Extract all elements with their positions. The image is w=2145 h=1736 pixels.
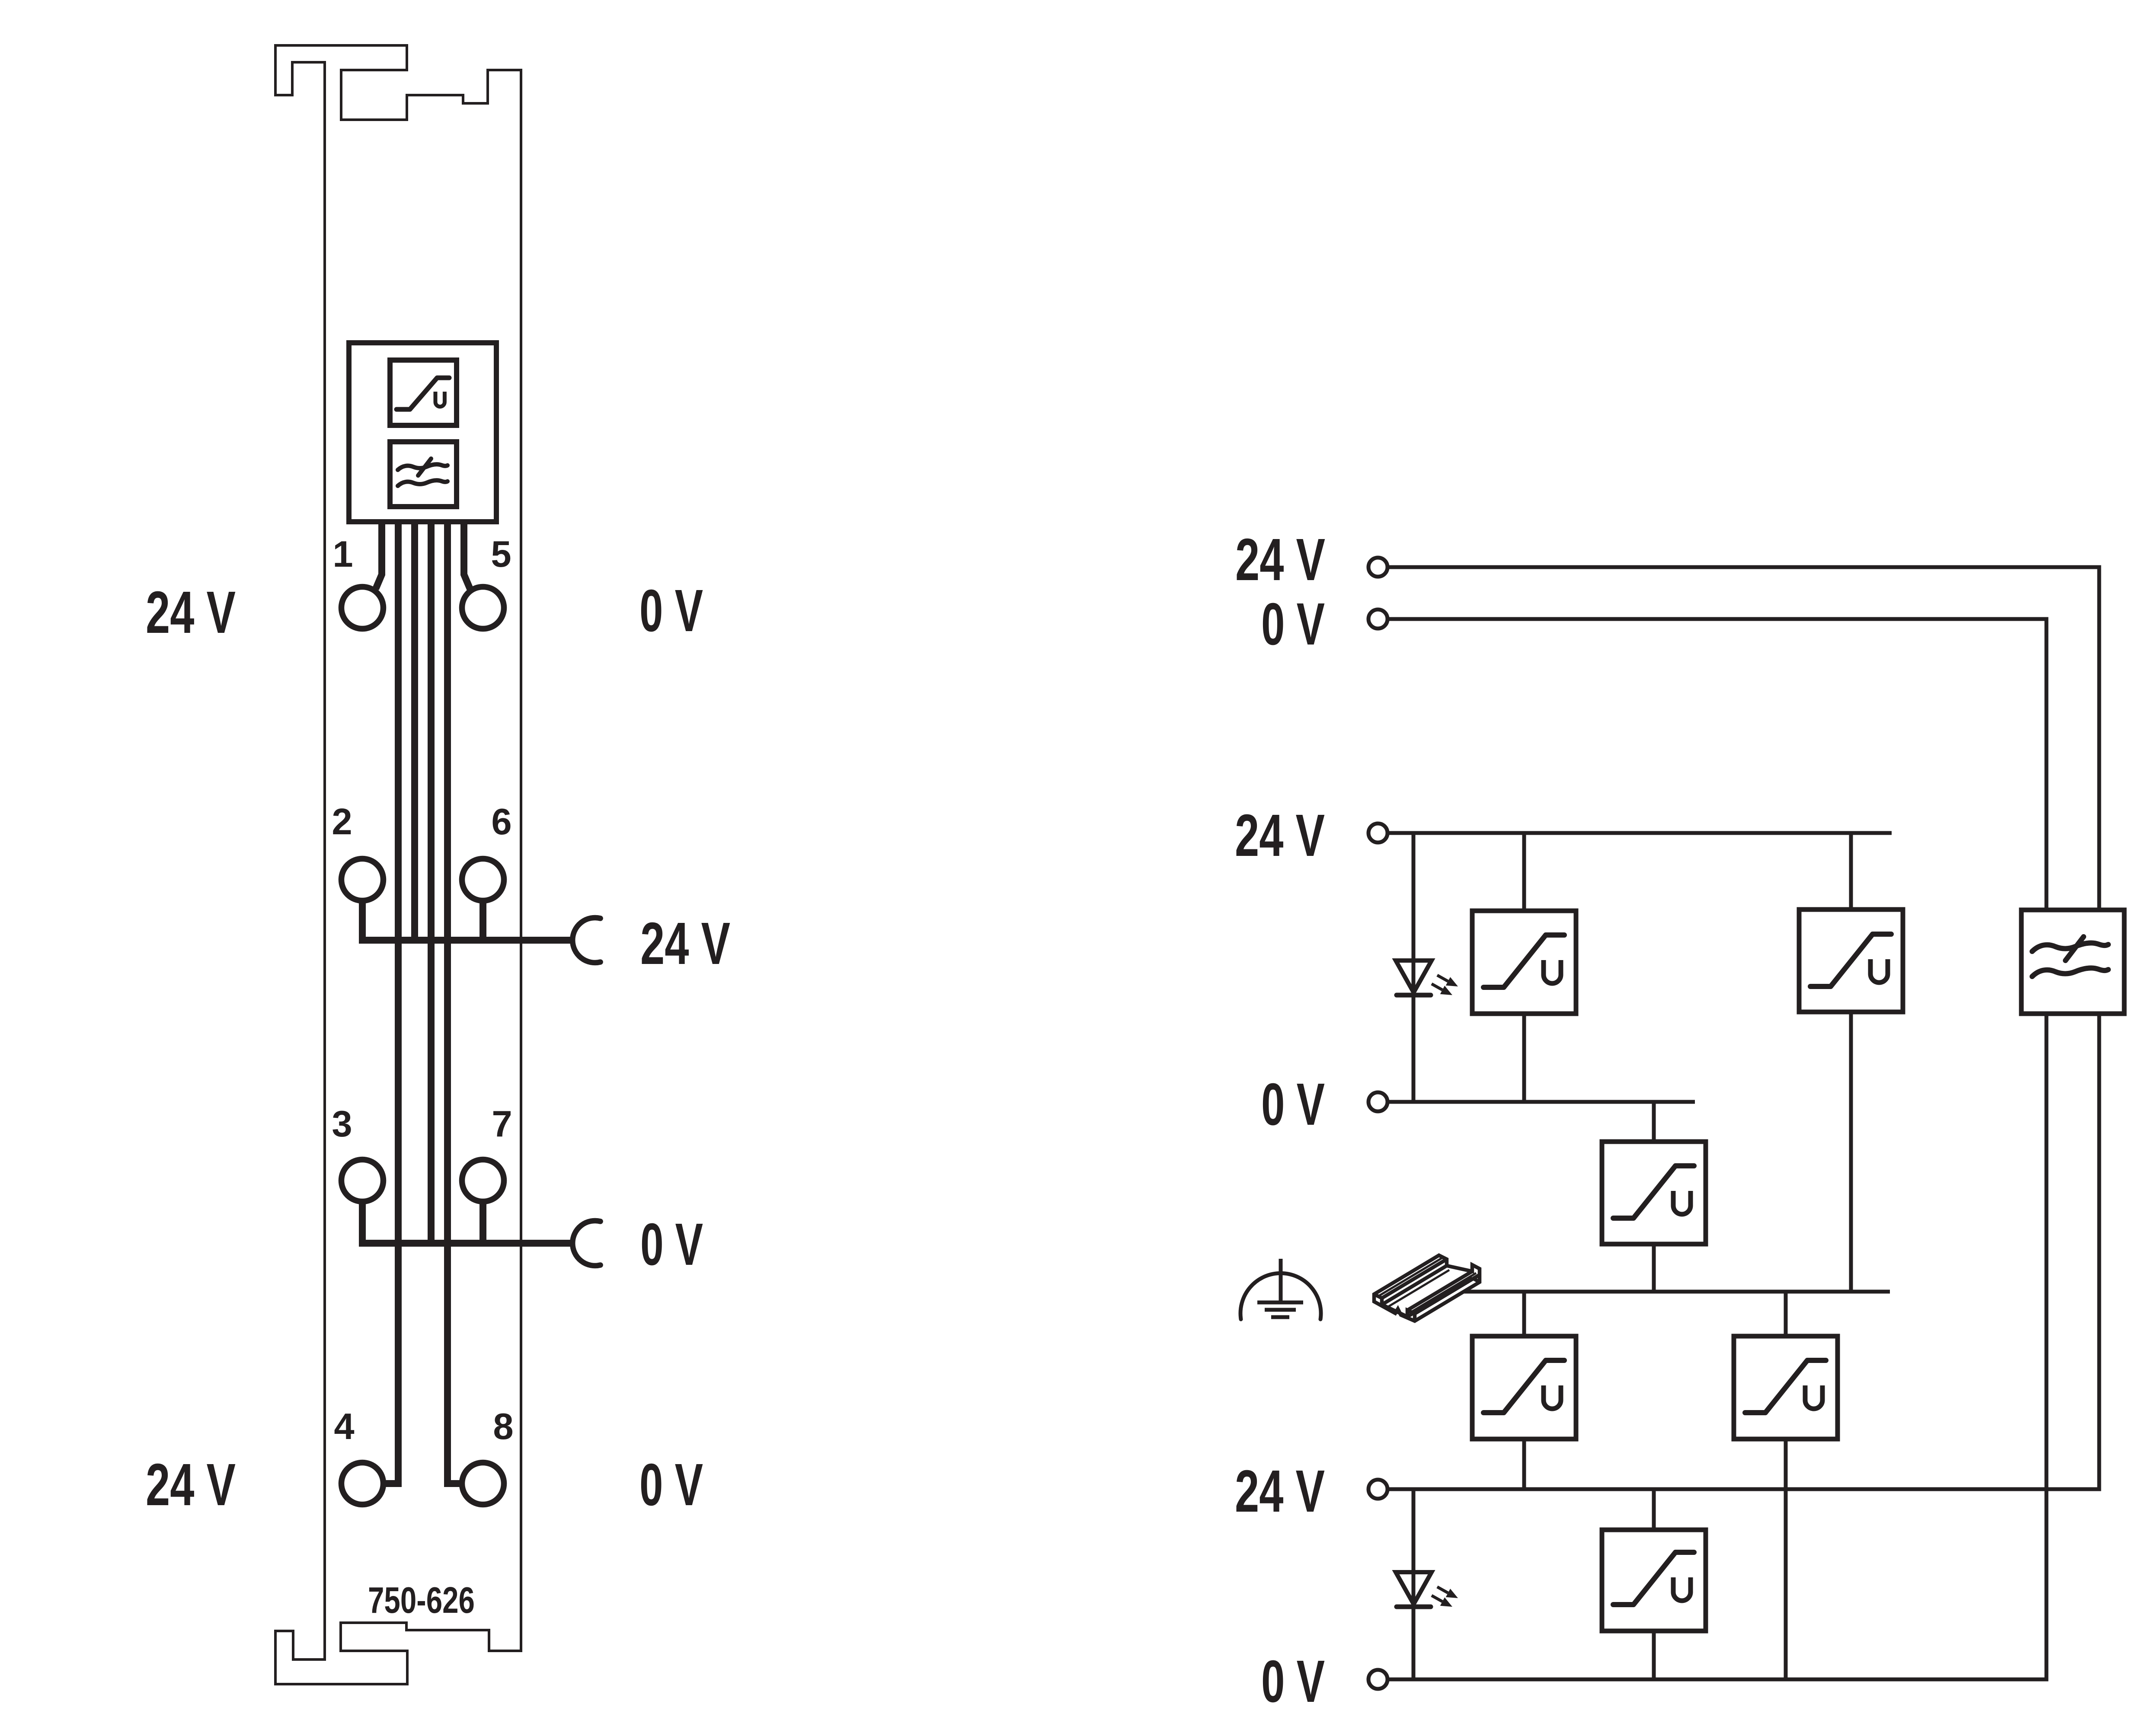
svg-text:7: 7 <box>492 1104 512 1145</box>
ramp curve icon <box>396 378 449 409</box>
pin 6 terminal circle <box>462 859 504 901</box>
LED1 light arrow b <box>1432 984 1442 990</box>
svg-text:3: 3 <box>332 1104 352 1145</box>
wire 24V system bus <box>1389 831 1892 835</box>
regulator box A <box>1472 911 1576 1014</box>
box F U <box>1805 1385 1822 1409</box>
wire LED2 branch <box>1412 1489 1416 1679</box>
wire box B top <box>1652 1102 1656 1142</box>
wire box G bottom <box>1652 1631 1656 1679</box>
icon square filter <box>390 442 457 507</box>
module 750-626 body outline <box>275 45 521 1684</box>
svg-text:5: 5 <box>491 534 511 575</box>
wire bus to pin4 <box>384 522 398 1484</box>
pin 4 terminal circle <box>342 1463 384 1505</box>
LED2 indicator <box>1396 1572 1432 1604</box>
wire box D to 24V out bus <box>1389 1014 2099 1489</box>
filter icon wave 2 <box>398 480 448 486</box>
svg-text:24 V: 24 V <box>640 910 730 977</box>
box D wave 2 <box>2032 968 2108 976</box>
LED2 light arrow a <box>1437 1587 1448 1593</box>
U label of ramp icon <box>435 392 444 407</box>
wire bus to 24V output row <box>411 522 418 940</box>
wire box F bottom <box>1784 1439 1788 1679</box>
pin 2 terminal circle <box>342 859 384 901</box>
terminal 0V field supply <box>1368 610 1387 629</box>
pin 5 terminal circle <box>462 587 504 629</box>
wire bus to pin8 <box>448 522 461 1484</box>
regulator box G <box>1602 1530 1706 1631</box>
terminal 0V system in <box>1368 1092 1387 1111</box>
terminal 24V out <box>1368 1480 1387 1499</box>
wire box G top <box>1652 1489 1656 1530</box>
svg-text:24 V: 24 V <box>146 1452 236 1518</box>
svg-text:0 V: 0 V <box>1261 1071 1325 1138</box>
24V output hook connector <box>572 918 600 963</box>
wire box E bottom <box>1522 1439 1526 1489</box>
wire pin6 lead <box>480 901 486 940</box>
earth symbol <box>1240 1273 1321 1319</box>
svg-text:2: 2 <box>332 801 352 842</box>
box E U <box>1544 1385 1561 1409</box>
box D slash <box>2065 937 2084 961</box>
box E ramp icon <box>1483 1360 1564 1413</box>
filter block outer box <box>349 343 496 522</box>
terminal 0V out <box>1368 1670 1387 1689</box>
wire pin3 lead and 0V output bus <box>362 1202 573 1243</box>
svg-text:4: 4 <box>334 1406 354 1447</box>
svg-text:24 V: 24 V <box>1235 802 1325 869</box>
icon square ramp/U <box>390 360 457 425</box>
wire 0V field supply to filter <box>1389 619 2046 910</box>
box G ramp icon <box>1613 1552 1694 1605</box>
box F ramp icon <box>1745 1360 1826 1413</box>
wire box A top <box>1522 833 1526 911</box>
regulator box C <box>1799 909 1903 1012</box>
filter icon slash <box>418 459 431 475</box>
wire pin5 from block <box>464 522 470 589</box>
LED1 light arrow a <box>1437 975 1448 981</box>
box A U <box>1544 960 1561 983</box>
wire box B bottom <box>1652 1244 1656 1292</box>
pin 3 terminal circle <box>342 1160 384 1202</box>
svg-text:750-626: 750-626 <box>368 1580 475 1621</box>
wire 24V field supply to filter <box>1389 567 2099 910</box>
wire box C top <box>1849 833 1853 909</box>
wire box D to 0V out bus <box>1389 1014 2046 1679</box>
wire 0V system bus <box>1389 1100 1695 1104</box>
svg-text:24 V: 24 V <box>1235 527 1325 593</box>
wire LED1 branch <box>1412 833 1416 1102</box>
svg-text:6: 6 <box>491 801 511 842</box>
box C ramp icon <box>1810 934 1891 986</box>
regulator box E <box>1472 1336 1576 1439</box>
box A ramp icon <box>1483 935 1564 987</box>
box G U <box>1673 1577 1691 1601</box>
terminal 24V system in <box>1368 823 1387 842</box>
wire box F top <box>1784 1292 1788 1336</box>
wire box E top <box>1522 1292 1526 1336</box>
pin 8 terminal circle <box>462 1463 504 1505</box>
wire box C bottom <box>1849 1012 1853 1292</box>
svg-text:24 V: 24 V <box>146 579 236 646</box>
filter icon wave 1 <box>398 464 448 470</box>
wire pin7 lead <box>480 1202 486 1243</box>
wire bus to 0V output row <box>428 522 435 1243</box>
wire pin1 from block <box>376 522 382 589</box>
DIN rail pictogram <box>1374 1255 1480 1321</box>
wire pin2 lead and 24V output bus <box>362 901 573 940</box>
box D wave 1 <box>2032 943 2108 951</box>
LED1 indicator <box>1396 961 1432 992</box>
svg-text:8: 8 <box>493 1406 513 1447</box>
svg-text:0 V: 0 V <box>1261 1648 1325 1715</box>
box B U <box>1673 1191 1691 1214</box>
regulator box F <box>1734 1336 1838 1439</box>
box B ramp icon <box>1613 1166 1694 1218</box>
box C U <box>1870 959 1888 983</box>
pin 1 terminal circle <box>342 587 384 629</box>
terminal 24V field supply <box>1368 558 1387 577</box>
svg-text:0 V: 0 V <box>1261 591 1325 657</box>
svg-text:0 V: 0 V <box>639 1452 703 1518</box>
svg-text:24 V: 24 V <box>1235 1458 1325 1525</box>
svg-text:1: 1 <box>332 534 353 575</box>
svg-text:0 V: 0 V <box>640 1211 703 1278</box>
LED2 light arrow b <box>1432 1596 1442 1602</box>
wire box A bottom <box>1522 1014 1526 1102</box>
filter box D <box>2021 910 2124 1014</box>
ground bus wire <box>1448 1290 1890 1294</box>
regulator box B <box>1602 1142 1706 1244</box>
pin 7 terminal circle <box>462 1160 504 1202</box>
0V output hook connector <box>572 1221 600 1266</box>
svg-text:0 V: 0 V <box>639 578 703 644</box>
